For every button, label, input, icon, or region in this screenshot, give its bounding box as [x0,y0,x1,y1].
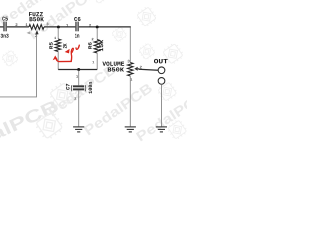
ground under VOLUME [125,127,136,132]
pin 1 of C7 [76,75,78,77]
ground under C7 [73,127,84,132]
value 1n (digit 1) [75,34,77,38]
label B50K (volume) [108,67,124,71]
pin 2 of R6 [92,38,94,40]
pin 1 of FUZZ [26,23,28,26]
pad below OUT [158,78,165,85]
wire C7 top lead [78,71,80,86]
value 15K [99,40,103,51]
pin 1 of R6 [92,61,94,63]
value 2K [63,44,67,49]
value 3n3 [1,34,9,38]
potentiometer VOLUME B50K [128,63,133,77]
ground under OUT pad [156,127,167,132]
pin 2 of C6 [89,24,91,27]
red annotation check mark [76,45,79,49]
pin 2 of C5 [15,23,17,26]
wire C5 to FUZZ pot pin1 [7,26,29,28]
label VOLUME [102,62,124,66]
capacitor C7 [73,85,84,87]
pin 3 of VOLUME [127,60,129,63]
wire C6 to corner and down to VOLUME pot [79,26,131,28]
pad OUT [158,67,165,74]
node junction at R6 top [96,26,99,29]
pin 1 of C6 [66,24,68,27]
node junction at R5 top [57,26,60,29]
wire VOLUME bottom to ground [129,76,131,126]
wiper arrow of FUZZ pot [35,30,38,34]
label R6 [88,42,91,48]
label C7 [66,84,70,90]
pin 2 (wiper) of VOLUME [140,66,142,69]
label FUZZ [29,12,43,16]
pin 1 of VOLUME [130,78,132,80]
value 100n [89,82,93,94]
small gray adjust mark left of FUZZ wiper [27,32,30,35]
red annotation arrow at R5 bottom [53,48,74,61]
node junction at C7 top [77,68,80,71]
resistor R6 [94,40,99,54]
wire C7 to ground [78,90,80,126]
pin 1 of R5 [54,37,56,39]
pin 2 of C7 [74,97,76,99]
label C6 [74,17,80,21]
pin 2 (wiper) of FUZZ [35,34,37,37]
capacitor C6 [75,22,76,32]
wiper arrow of VOLUME pot [134,67,137,71]
wire R5 bottom lead [57,52,59,70]
label R5 [49,42,52,48]
wire VOLUME wiper to OUT pad [139,69,158,70]
wire FUZZ pin3 to C6 [44,26,75,28]
label C5 [2,17,8,21]
potentiometer FUZZ B50K [29,25,44,30]
wire corner down to VOLUME pot [129,28,131,63]
pin 3 of FUZZ [46,23,48,26]
wire pad to ground [161,84,163,126]
capacitor C5 [3,22,4,32]
wire R6 top lead [96,28,98,40]
wire input net from left edge to C5 [0,26,3,28]
wire FUZZ wiper down then left to edge [0,35,37,97]
label OUT [154,59,168,63]
resistor R5 [55,39,60,52]
wire R5 top lead [57,28,59,39]
wire bottom net R5 to R6 [58,69,97,71]
value 1n (letter n) [77,34,79,37]
wire R6 bottom lead [96,53,98,70]
label B50K (fuzz) [30,17,44,21]
